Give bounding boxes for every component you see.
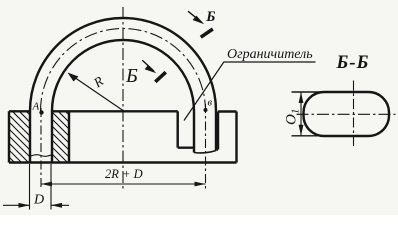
left leg centerline [40,108,42,187]
section dim vertical line with arrows [300,92,302,136]
base plate left sectioned block outline [9,111,30,162]
base plate hatching middle block [52,111,69,162]
svg-text:D: D [33,193,44,208]
svg-text:2R + D: 2R + D [105,167,143,181]
limiter notch right wall [217,112,219,150]
limiter notch bottom right segment [216,148,218,150]
base plate right edge [235,112,237,163]
section view vertical centerline [353,81,355,147]
svg-text:Б: Б [125,65,138,87]
limiter notch left wall [176,111,178,147]
outer arc of tube [30,18,216,111]
limiter notch bottom left segment [178,146,194,148]
point A [39,110,43,114]
svg-text:R: R [90,73,107,91]
svg-text:О1: О1 [284,109,302,125]
svg-text:в: в [208,98,213,109]
leader line to limiter [184,62,316,121]
right leg tube end line [194,151,216,153]
radius R arrow [70,74,124,111]
section plane thick stroke (top right) [201,29,213,37]
right leg inner wall [193,111,195,153]
left leg inner wall [51,111,53,163]
dimension 2R+D line with arrows [41,183,206,185]
svg-text:А: А [32,101,40,113]
base plate top edge (middle span) [69,110,178,112]
section plane thick stroke (middle) [155,72,166,82]
svg-text:Б-Б: Б-Б [336,53,370,73]
right leg outer wall [215,111,217,151]
left leg outer wall [29,111,31,163]
svg-text:Б: Б [205,9,215,25]
base plate bottom edge [9,161,237,163]
point B [204,108,208,112]
base plate hatching left block [9,111,30,162]
section B-B stadium outline [304,92,390,136]
svg-text:Ограничитель: Ограничитель [227,47,313,62]
extension lines for D [30,164,52,210]
section arrow Б (middle) [142,60,154,71]
inner arc of tube [52,40,194,111]
left leg tube break line [30,155,52,157]
right leg centerline [205,104,207,190]
base plate middle sectioned block outline [52,111,69,162]
dimension D line with outside arrows [3,204,69,206]
vertical centerline of arch [122,7,124,189]
centerline arc (dash-dot) [41,28,206,111]
section view horizontal centerline [297,113,396,115]
section dim extension lines [292,92,336,136]
section arrow Б (top right) [188,11,202,22]
base plate top right edge [218,110,237,112]
